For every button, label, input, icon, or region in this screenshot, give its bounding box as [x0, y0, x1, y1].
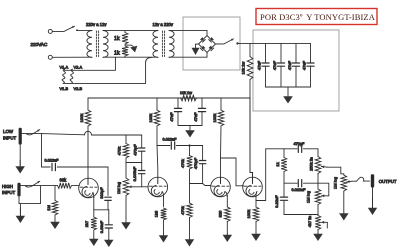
ground (4k7 lin)	[313, 234, 323, 242]
potentiometer 1M log (LOW volume)	[123, 163, 129, 219]
svg-text:47uF: 47uF	[193, 112, 198, 122]
wiper 250k lin	[321, 166, 344, 174]
svg-text:1M log: 1M log	[332, 177, 337, 189]
ground (filter caps)	[283, 87, 293, 104]
label 470k V2.A	[180, 159, 185, 168]
resistor 820 cathode V2.A	[225, 207, 231, 234]
wire tone bottom rail	[284, 214, 318, 216]
wire T2 secondary bottom to bridge	[169, 53, 207, 58]
wire V2.A plate to V2.B grid (direct coupling)	[221, 158, 244, 186]
wire heater B to transformer junction	[64, 57, 153, 83]
label 1M log master	[332, 177, 337, 189]
label 0.68uF	[99, 220, 104, 233]
ground (heater center tap)	[130, 45, 137, 52]
capacitor 47uF decoupling right	[198, 98, 205, 126]
wire V2.B cathode junction	[256, 149, 266, 201]
potentiometer 1M log master	[341, 174, 347, 212]
svg-text:47uF: 47uF	[287, 60, 292, 70]
wire V1.A cathode	[93, 197, 95, 210]
node at 470k	[188, 144, 190, 146]
capacitor 0.022uF bass	[298, 180, 318, 187]
label 1k lower	[114, 51, 120, 57]
ground (1M log master)	[339, 212, 349, 221]
wire V2.A plate	[220, 126, 223, 178]
svg-text:68k: 68k	[60, 177, 68, 182]
label 470k LOW	[117, 147, 122, 156]
svg-text:INPUT: INPUT	[2, 190, 15, 195]
triode V2.A	[211, 177, 231, 197]
label 47uF #1	[257, 60, 262, 70]
svg-text:1k: 1k	[275, 162, 280, 166]
ground (bridge)	[192, 44, 200, 55]
wire T1 secondary top to T2 primary top	[103, 29, 158, 31]
transformer T2 core	[162, 31, 164, 57]
label 47uF #2	[272, 60, 277, 70]
capacitor 47uF filter #4	[307, 43, 314, 87]
label HIGH INPUT	[2, 184, 15, 195]
svg-text:1k: 1k	[114, 51, 120, 57]
jack HIGH input	[17, 183, 20, 197]
svg-text:1k: 1k	[114, 36, 120, 42]
svg-text:220v a 12v: 220v a 12v	[86, 22, 107, 27]
capacitor 470pF treble	[298, 145, 318, 152]
capacitor 0.005uF	[139, 163, 145, 187]
resistor 470k grid leak V2.A	[187, 184, 193, 240]
ground (1k8)	[159, 234, 168, 243]
wire mid rail to volume wiper	[318, 183, 329, 196]
svg-text:OUTPUT: OUTPUT	[379, 179, 397, 184]
capacitor 900pF	[105, 197, 111, 210]
label 1k upper	[114, 36, 120, 42]
svg-text:900pF: 900pF	[99, 187, 104, 199]
svg-text:100k: 100k	[212, 114, 217, 123]
label V1.B	[60, 86, 69, 91]
triode V1.A	[79, 178, 99, 198]
wire V2.A cathode	[226, 196, 228, 208]
ground (output jack)	[368, 188, 377, 215]
wire tone mid rail	[284, 182, 297, 184]
transformer T1 secondary winding	[103, 31, 108, 58]
capacitor 47uF filter #3	[292, 43, 299, 87]
label 470pF V2.A	[193, 157, 198, 169]
wire 1k junction to ground	[125, 44, 132, 46]
resistor 1M grid leak	[52, 186, 58, 220]
label 470pF LOW	[133, 144, 138, 156]
label 0.005uF	[132, 166, 137, 181]
capacitor 0.022uF interstage	[157, 142, 203, 149]
svg-text:V2.B: V2.B	[74, 86, 83, 91]
svg-text:100k: 100k	[246, 210, 251, 219]
svg-text:12v a 220v: 12v a 220v	[153, 22, 174, 27]
svg-text:0.005uF: 0.005uF	[132, 166, 137, 181]
capacitor 47uF decoupling left	[174, 98, 181, 126]
label 100k plate V1.B	[148, 114, 153, 123]
capacitor 0.68uF cathode bypass	[105, 210, 112, 240]
label 220VAC	[31, 42, 48, 47]
label 1k slope	[275, 162, 280, 166]
resistor 100k plate V1.B	[154, 98, 160, 126]
wiper 1M log volume	[321, 194, 328, 197]
triode V1.B	[148, 177, 168, 197]
svg-text:INPUT: INPUT	[3, 135, 16, 140]
svg-text:820: 820	[217, 210, 222, 217]
label 2k7	[84, 220, 89, 227]
svg-text:0.022uF: 0.022uF	[45, 159, 60, 163]
ground (1M)	[50, 220, 60, 230]
wire filter cap bottom bus	[266, 86, 311, 88]
wire V1.A plate	[87, 126, 89, 179]
resistor 2k7 cathode	[91, 210, 97, 239]
resistor 1k lower (heater balance)	[122, 46, 128, 57]
label 10k 1w on bus	[180, 91, 192, 95]
wire 470k-470pF bottom rail	[126, 162, 142, 164]
resistor 100k cathode V2.B	[253, 201, 259, 234]
label 1M log volume	[306, 191, 311, 203]
resistor 10k 1w on bus	[181, 95, 197, 101]
capacitor 0.022uF LOW coupling	[42, 133, 109, 170]
potentiometer 4k7 lin	[315, 216, 321, 234]
svg-text:220VAC: 220VAC	[31, 42, 48, 47]
wiper 1M log LOW to V1.B grid	[129, 185, 149, 188]
transformer T2 primary winding	[153, 31, 158, 58]
label 100k plate V1.A	[79, 114, 84, 123]
svg-text:10k 1w: 10k 1w	[241, 62, 246, 75]
svg-text:2k7: 2k7	[84, 220, 89, 227]
svg-text:HIGH: HIGH	[2, 184, 13, 189]
resistor 470k grid V2.A	[187, 146, 193, 184]
title text	[260, 12, 376, 22]
resistor 68k grid stopper	[58, 183, 72, 189]
svg-text:250k lin: 250k lin	[308, 157, 313, 171]
label 0.022uF bass	[292, 188, 307, 192]
wire 68k to V1.A grid	[72, 185, 80, 187]
bridge rectifier D1-D4	[199, 36, 216, 53]
switch SW1 mains	[64, 26, 92, 31]
wire from top terminal to mains switch	[52, 30, 64, 32]
label 0.82uF	[274, 195, 279, 208]
ground (470k grid leak)	[185, 239, 194, 246]
wire hop over plate line	[85, 131, 142, 135]
wire B+ bus	[88, 97, 250, 99]
svg-text:47uF: 47uF	[257, 60, 262, 70]
svg-text:0.82uF: 0.82uF	[274, 195, 279, 208]
ground (decoupling caps)	[185, 126, 195, 138]
resistor 100k plate V2.A	[218, 98, 224, 126]
jack LOW input	[19, 128, 22, 145]
svg-text:470pF: 470pF	[133, 144, 138, 156]
ground (2k7)	[89, 239, 99, 247]
wire T1 secondary bottom to T2 primary bottom	[103, 56, 158, 58]
terminal 220VAC line (top)	[48, 29, 52, 33]
label 4k7 lin	[307, 216, 312, 228]
box around rectifier	[183, 17, 240, 70]
triode V2.B (cathode follower)	[243, 177, 263, 197]
svg-text:0.022uF: 0.022uF	[163, 138, 178, 142]
svg-text:470pF: 470pF	[294, 142, 305, 146]
capacitor 47uF filter #1	[262, 43, 269, 87]
jack sleeve loop	[19, 186, 41, 204]
switch contact on HIGH jack	[26, 181, 40, 187]
label V2.A	[74, 64, 83, 69]
label 100k plate V2.A	[212, 114, 217, 123]
svg-text:47uF: 47uF	[169, 112, 174, 122]
wire B+ down to V2 plate	[250, 98, 253, 178]
label V2.B	[74, 86, 83, 91]
potentiometer 1M log volume	[315, 183, 321, 215]
svg-text:470k: 470k	[180, 159, 185, 168]
ground (0.68uF)	[104, 240, 114, 248]
transformer T1 primary winding	[87, 31, 92, 58]
svg-text:47uF: 47uF	[272, 60, 277, 70]
jack OUTPUT	[371, 174, 374, 187]
wire to 900pF	[107, 167, 109, 195]
label 47uF decoupling right	[193, 112, 198, 122]
capacitor 47uF filter #2	[277, 43, 284, 87]
svg-text:LOW: LOW	[3, 129, 14, 134]
svg-text:470k: 470k	[180, 206, 185, 215]
label 220v a 12v	[86, 22, 107, 27]
wire grid rail V2.A	[190, 184, 211, 186]
svg-text:100k: 100k	[79, 114, 84, 123]
label 0.022uF LOW	[45, 159, 60, 163]
transformer T1 core	[96, 31, 98, 57]
ground (HIGH jack)	[16, 204, 26, 223]
label 68k	[60, 177, 68, 182]
svg-text:1M log: 1M log	[306, 191, 311, 203]
wire V1.B cathode	[163, 196, 165, 206]
label 0.022uF interstage	[163, 138, 178, 142]
switch SW2 standby	[216, 39, 239, 45]
svg-text:10k 1w: 10k 1w	[180, 91, 192, 95]
label 820	[217, 210, 222, 217]
label 47uF decoupling left	[169, 112, 174, 122]
label 470pF treble	[294, 142, 305, 146]
capacitor 0.82uF	[280, 183, 287, 214]
svg-text:1M log: 1M log	[116, 182, 121, 194]
resistor 1k slope	[281, 149, 287, 183]
wiper 4k7 lin	[321, 221, 327, 228]
wire tone stack top rail	[266, 148, 298, 150]
ground (LOW jack)	[15, 145, 25, 174]
wiper 1M log master	[347, 180, 357, 183]
svg-text:POR D3C3º Y TONYGT-IBIZA: POR D3C3º Y TONYGT-IBIZA	[260, 12, 376, 22]
label 470k grid leak	[180, 206, 185, 215]
label OUTPUT	[379, 179, 397, 184]
heater connector V2 wiggle	[70, 69, 73, 83]
label 900pF	[99, 187, 104, 199]
svg-text:V1.A: V1.A	[60, 64, 69, 69]
svg-text:1M: 1M	[46, 205, 51, 211]
box around filter caps	[253, 30, 339, 111]
wire cathode rail V1.A	[94, 209, 109, 211]
label 47uF #3	[287, 60, 292, 70]
label 250k lin	[308, 157, 313, 171]
label 1M log LOW	[116, 182, 121, 194]
red title box	[256, 9, 377, 25]
wire V1.B plate	[156, 126, 159, 177]
label 1M	[46, 205, 51, 211]
label LOW INPUT	[3, 129, 16, 140]
label 100k V2.B	[246, 210, 251, 219]
wire LOW input line	[22, 133, 85, 134]
wire B+ from switch to cap bank	[238, 42, 311, 44]
svg-text:47uF: 47uF	[302, 60, 307, 70]
svg-text:V1.B: V1.B	[60, 86, 69, 91]
svg-text:470k: 470k	[117, 147, 122, 156]
transformer T2 secondary winding	[169, 31, 174, 58]
wire heater A to transformer junction	[65, 57, 116, 70]
heater connector V1 wiggle	[62, 69, 65, 83]
svg-text:V2.A: V2.A	[74, 64, 83, 69]
svg-text:1k8: 1k8	[154, 210, 159, 217]
wire decoupling bottom	[178, 125, 202, 127]
svg-text:0.022uF: 0.022uF	[292, 188, 307, 192]
switch contact on LOW jack	[27, 130, 40, 135]
resistor 10k 1w vertical (B+ dropper)	[247, 43, 253, 98]
resistor 1k8 cathode V1.B	[161, 208, 167, 234]
terminal 220VAC neutral (bottom)	[48, 55, 52, 59]
label V1.A	[60, 64, 69, 69]
ground (820)	[223, 234, 233, 242]
label 10k 1w vertical	[241, 62, 246, 75]
wire HIGH input line	[21, 185, 58, 187]
label 1k8	[154, 210, 159, 217]
resistor 470k LOW	[123, 135, 129, 163]
resistor 1k upper (heater balance)	[122, 30, 128, 44]
wire from bottom terminal to T1 primary	[52, 56, 92, 58]
capacitor 470pF bright	[199, 146, 205, 184]
svg-text:100k: 100k	[148, 114, 153, 123]
label 12v a 220v	[153, 22, 174, 27]
potentiometer 250k lin treble	[315, 149, 321, 183]
svg-text:0.68uF: 0.68uF	[99, 220, 104, 233]
jack switch contact (output)	[357, 177, 370, 181]
ground (1M log LOW)	[121, 218, 131, 230]
label 47uF #4	[302, 60, 307, 70]
ground (100k V2.B)	[251, 233, 261, 241]
capacitor 470pF LOW	[139, 135, 145, 163]
svg-text:470pF: 470pF	[193, 157, 198, 169]
resistor 100k plate V1.A	[85, 98, 91, 126]
svg-text:4k7 lin: 4k7 lin	[307, 216, 312, 228]
wire T2 secondary top to bridge	[169, 30, 207, 35]
